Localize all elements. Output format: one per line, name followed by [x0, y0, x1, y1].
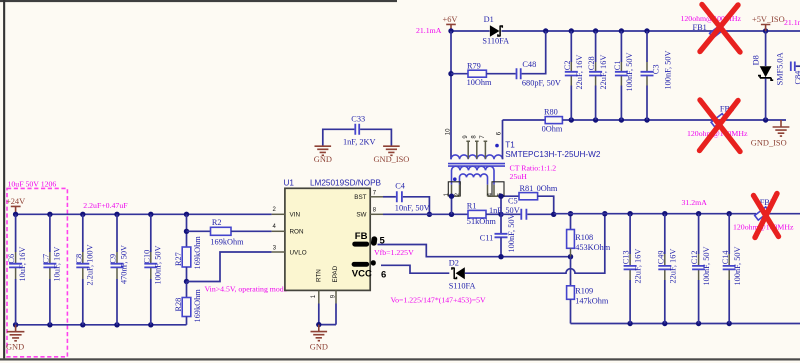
svg-text:UVLO: UVLO — [290, 249, 307, 256]
svg-text:100nF, 50V: 100nF, 50V — [625, 53, 634, 92]
diode D1 S110FA — [482, 15, 509, 45]
svg-text:SMTEPC13H-T-25UH-W2: SMTEPC13H-T-25UH-W2 — [505, 150, 601, 159]
svg-text:SMF5.0A: SMF5.0A — [776, 52, 785, 85]
svg-text:FB1: FB1 — [693, 23, 707, 32]
junction dot SW/T1 pins 1,2 — [449, 212, 454, 217]
svg-text:GND_ISO: GND_ISO — [374, 155, 410, 164]
svg-text:GND_ISO: GND_ISO — [751, 139, 787, 148]
svg-text:C84: C84 — [793, 70, 800, 85]
svg-text:51kOhm: 51kOhm — [467, 217, 497, 226]
T1 pin 7 tap — [484, 141, 488, 159]
ground GND_ISO at C33 — [374, 146, 410, 164]
svg-text:2.2uF+0.47uF: 2.2uF+0.47uF — [83, 201, 128, 210]
wire ISO return rail — [571, 323, 800, 325]
svg-text:C11: C11 — [480, 233, 494, 242]
resistor R1 — [467, 202, 501, 226]
svg-text:C48: C48 — [522, 60, 536, 69]
svg-text:453KOhm: 453KOhm — [575, 243, 611, 252]
svg-text:R109: R109 — [575, 287, 593, 296]
ferrite bead FB3 — [687, 104, 748, 137]
svg-text:BST: BST — [354, 194, 366, 201]
wire +6V rail — [451, 30, 800, 32]
svg-text:GND: GND — [310, 342, 328, 351]
T1 pin box left pins 1,2 — [448, 182, 460, 196]
svg-text:21.1mA: 21.1mA — [416, 26, 442, 35]
svg-text:Vin>4.5V, operating mode: Vin>4.5V, operating mode — [205, 284, 288, 293]
svg-text:R2: R2 — [212, 218, 222, 227]
svg-text:100nF, 50V: 100nF, 50V — [507, 214, 516, 253]
svg-text:R1: R1 — [467, 202, 477, 211]
capacitor C48 — [517, 31, 561, 88]
ground GND left — [6, 325, 24, 352]
svg-text:FB: FB — [355, 231, 368, 242]
junction dot R108 top — [568, 211, 573, 216]
junction dot Vo rail tap — [602, 211, 607, 216]
T1 pin 8 tap — [475, 141, 479, 159]
svg-text:C12: C12 — [690, 250, 699, 264]
svg-text:D2: D2 — [449, 259, 459, 268]
svg-text:22uF, 16V: 22uF, 16V — [599, 55, 608, 90]
svg-text:1nF, 2KV: 1nF, 2KV — [343, 138, 376, 147]
junction dots Vo rail — [627, 211, 732, 216]
T1 primary winding — [451, 155, 503, 159]
svg-text:R28: R28 — [174, 298, 183, 312]
svg-text:S110FA: S110FA — [449, 282, 476, 291]
svg-text:R27: R27 — [174, 252, 183, 266]
svg-text:RTN: RTN — [316, 269, 323, 282]
capacitor C84 edge fragment — [791, 62, 800, 85]
svg-text:U1: U1 — [284, 178, 295, 187]
junction node R27/R28/UVLO — [184, 279, 189, 284]
svg-text:GND: GND — [6, 342, 24, 351]
power +6V — [443, 15, 458, 31]
svg-text:R81: R81 — [520, 184, 534, 193]
svg-text:147kOhm: 147kOhm — [575, 296, 609, 305]
svg-text:+24V: +24V — [6, 197, 25, 206]
svg-text:S110FA: S110FA — [482, 37, 509, 46]
border frame — [0, 0, 397, 2]
svg-text:C8: C8 — [74, 254, 83, 264]
svg-text:C1: C1 — [613, 61, 622, 71]
svg-text:100nF, 50V: 100nF, 50V — [733, 247, 742, 286]
power +5V_ISO — [752, 15, 785, 31]
svg-text:LM25019SD/NOPB: LM25019SD/NOPB — [310, 178, 382, 187]
svg-text:100nF, 50V: 100nF, 50V — [664, 51, 673, 90]
wire T1 pin10 drop — [450, 31, 452, 159]
wire T1 pins 1,2 to SW — [451, 196, 453, 214]
svg-text:R79: R79 — [467, 61, 481, 70]
ground GND under U1 — [310, 325, 328, 352]
ground GND_ISO right — [751, 120, 790, 148]
svg-text:VCC: VCC — [352, 268, 372, 279]
wire UVLO net — [187, 252, 272, 282]
wire RTN/EPAD to ground — [319, 304, 336, 325]
T1 pin 6 — [502, 120, 504, 159]
svg-text:31.2mA: 31.2mA — [682, 198, 708, 207]
junction dots ground rail left — [13, 322, 154, 327]
resistor R28 — [174, 282, 202, 325]
annotation box 10uF 50V 1206 — [7, 180, 67, 357]
svg-text:1nF, 50V: 1nF, 50V — [489, 206, 520, 215]
svg-text:C4: C4 — [395, 182, 406, 191]
svg-text:25uH: 25uH — [510, 172, 528, 181]
svg-text:10uF, 16V: 10uF, 16V — [18, 247, 27, 282]
pin 1 RTN — [311, 290, 319, 303]
svg-text:100nF, 50V: 100nF, 50V — [153, 246, 162, 285]
pin 2 VIN — [272, 207, 285, 214]
svg-text:22uF, 16V: 22uF, 16V — [668, 249, 677, 284]
capacitor C9 — [109, 214, 129, 324]
wire GND_ISO rail — [571, 119, 786, 121]
T1 pin 9 tap — [466, 141, 470, 159]
svg-text:VIN: VIN — [290, 212, 301, 219]
capacitor C28 — [587, 31, 608, 120]
svg-text:D8: D8 — [751, 55, 760, 65]
svg-text:C6: C6 — [7, 254, 16, 264]
T1 secondary outer winding — [452, 166, 495, 184]
svg-text:22uF, 16V: 22uF, 16V — [634, 249, 643, 284]
resistor R80 — [542, 107, 572, 133]
junction dot RTN ground — [316, 322, 321, 327]
capacitor C6 — [7, 214, 27, 324]
capacitor C4 — [383, 182, 430, 215]
power +24V — [6, 197, 25, 215]
T1 polarity dot primary — [495, 144, 499, 148]
capacitor C14 — [721, 214, 742, 324]
annotation FB pin markup — [352, 231, 385, 247]
capacitor C3 — [641, 31, 673, 120]
svg-text:680pF, 50V: 680pF, 50V — [522, 79, 561, 88]
resistor R27 — [174, 214, 202, 281]
ferrite bead FB1 — [681, 14, 742, 38]
svg-text:RON: RON — [290, 229, 304, 236]
wire D2 anode to Vo — [465, 214, 605, 274]
junction dot R79 tap — [448, 71, 453, 76]
svg-text:C5: C5 — [508, 197, 518, 206]
junction dot FB divider node — [568, 254, 573, 259]
capacitor C2 — [563, 31, 584, 120]
svg-text:EPAD: EPAD — [332, 265, 339, 282]
T1 secondary inner winding — [460, 174, 488, 185]
svg-text:C28: C28 — [587, 56, 596, 70]
resistor R108 — [567, 214, 611, 257]
junction dots +6V rail — [448, 28, 768, 33]
junction dot C5/R81 out — [551, 212, 556, 217]
resistor R109 — [567, 257, 609, 324]
pin 4 RON — [272, 224, 285, 231]
svg-text:169kOhm: 169kOhm — [193, 289, 202, 323]
op-amp U1 LM25019SD/NOPB — [284, 178, 382, 290]
pin 7 BST — [370, 191, 383, 197]
svg-text:0Ohm: 0Ohm — [537, 184, 558, 193]
red X over FB5 — [754, 194, 779, 238]
svg-text:D1: D1 — [484, 15, 494, 24]
junction dot C4/SW — [427, 212, 432, 217]
ground GND at C33 — [314, 146, 332, 164]
wire VCC net — [381, 265, 449, 273]
capacitor C11 — [480, 214, 516, 257]
capacitor C49 — [656, 214, 677, 324]
resistor R81 — [501, 184, 558, 214]
label CT ratio — [510, 163, 557, 181]
junction dot R1/C5/C11 node — [498, 212, 503, 217]
svg-text:C3: C3 — [652, 65, 661, 75]
junction dot T1 pins 1,2 — [449, 194, 454, 199]
wire Vo output rail — [554, 213, 800, 215]
svg-text:C14: C14 — [721, 250, 730, 265]
ferrite bead FB5 — [733, 198, 794, 232]
svg-text:10Ohm: 10Ohm — [467, 78, 492, 87]
capacitor C33 — [323, 115, 392, 147]
svg-text:10uF 50V 1206: 10uF 50V 1206 — [8, 180, 57, 189]
wire +24V rail — [16, 213, 272, 215]
svg-text:C10: C10 — [142, 250, 151, 264]
svg-text:C2: C2 — [563, 61, 572, 71]
capacitor C10 — [142, 214, 162, 324]
svg-text:C13: C13 — [622, 250, 631, 264]
capacitor C1 — [613, 31, 634, 120]
svg-text:+6V: +6V — [443, 15, 458, 24]
svg-text:T1: T1 — [505, 140, 515, 149]
pin 3 UVLO — [272, 246, 285, 253]
resistor R2 — [187, 218, 272, 247]
svg-text:470nF, 50V: 470nF, 50V — [120, 245, 129, 284]
svg-text:C33: C33 — [351, 115, 365, 124]
svg-text:+5V_ISO: +5V_ISO — [752, 15, 785, 24]
capacitor C8 — [74, 214, 94, 324]
svg-text:GND: GND — [314, 155, 332, 164]
capacitor C13 — [622, 214, 643, 324]
junction node R2 tap — [184, 229, 189, 234]
junction dots ISO return rail — [627, 321, 732, 326]
pin 9 EPAD — [330, 290, 336, 303]
junction dot FB/C11 — [498, 254, 503, 259]
annotation VCC pin markup — [352, 260, 387, 280]
svg-text:C9: C9 — [109, 254, 118, 264]
svg-text:R80: R80 — [544, 107, 558, 116]
svg-text:0Ohm: 0Ohm — [542, 125, 563, 134]
svg-text:C7: C7 — [42, 254, 51, 264]
svg-text:22uF, 16V: 22uF, 16V — [575, 55, 584, 90]
capacitor C7 — [42, 214, 62, 324]
diode D2 S110FA — [449, 259, 476, 291]
pin 8 SW — [370, 207, 383, 214]
svg-text:R108: R108 — [575, 233, 593, 242]
svg-text:Vo=1.225/147*(147+453)=5V: Vo=1.225/147*(147+453)=5V — [391, 295, 487, 304]
svg-text:21.1m: 21.1m — [784, 18, 800, 27]
wire T1 pin6 to R80 — [503, 119, 546, 121]
wire ground rail left — [16, 324, 187, 326]
svg-text:2.2uF, 100V: 2.2uF, 100V — [85, 244, 94, 285]
transformer T1 SMTEPC13H-T-25UH-W2 — [444, 120, 601, 196]
svg-text:C49: C49 — [656, 250, 665, 264]
diode D8 SMF5.0A zener — [751, 31, 784, 120]
red X over FB1 — [700, 5, 740, 53]
red X over FB3 — [700, 100, 741, 152]
junction dots +24V rail — [13, 212, 189, 217]
T1 polarity dot secondary — [453, 177, 457, 181]
svg-text:10nF, 50V: 10nF, 50V — [395, 204, 430, 213]
junction dots GND_ISO rail — [569, 117, 769, 122]
svg-text:10: 10 — [445, 128, 451, 135]
resistor R79 — [451, 61, 516, 87]
T1 core — [448, 164, 505, 167]
svg-text:SW: SW — [356, 212, 366, 219]
capacitor C5 — [489, 197, 554, 220]
svg-text:169kOhm: 169kOhm — [193, 236, 202, 270]
junction dot T1 pins 4,5 — [498, 194, 503, 199]
T1 pin box right pins 4,5 — [492, 182, 504, 196]
svg-text:100nF, 50V: 100nF, 50V — [702, 247, 711, 286]
svg-text:169kOhm: 169kOhm — [210, 238, 244, 247]
svg-text:6: 6 — [381, 269, 386, 280]
svg-text:10uF, 16V: 10uF, 16V — [53, 247, 62, 282]
wire FB net — [378, 245, 571, 257]
wire SW net — [383, 213, 468, 215]
capacitor C12 — [690, 214, 711, 324]
svg-text:Vfb=1.225V: Vfb=1.225V — [374, 248, 414, 257]
